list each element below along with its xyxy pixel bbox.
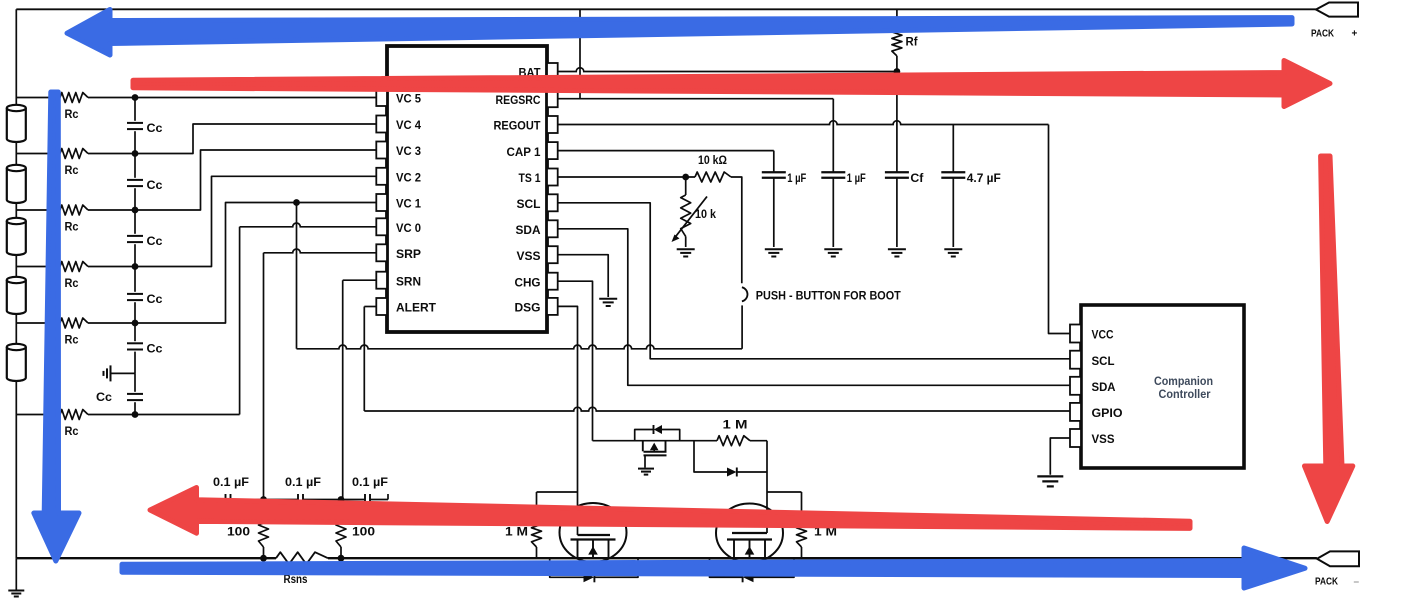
pin stub U2 VSS [1070, 429, 1081, 447]
svg-text:DSG: DSG [515, 301, 541, 315]
wire tap 1 to bus [88, 97, 135, 99]
wire Cc bus segment 1 [134, 98, 136, 121]
resistor Rc5 [60, 318, 88, 328]
svg-text:VC 1: VC 1 [396, 197, 421, 211]
capacitor 0.1uF #2 [297, 494, 299, 505]
arrow blue left (vertical) [34, 92, 79, 561]
ground (C2 1uF) [824, 248, 842, 250]
wire tap3 to VC3 [135, 150, 377, 210]
node TS1 junction [682, 174, 689, 181]
wire TS1 row [558, 176, 695, 178]
pin stub DSG [547, 298, 558, 315]
capacitor 0.1uF #1 [225, 494, 227, 505]
svg-text:100: 100 [227, 525, 250, 539]
wire C2 1uF to ground [832, 178, 834, 247]
svg-text:VSS: VSS [1092, 432, 1115, 446]
svg-text:Cc: Cc [147, 178, 163, 192]
transistor Q2 DSG FET [560, 503, 627, 562]
wire thermistor top [685, 177, 687, 195]
diode D4 (Q3 body) [743, 572, 754, 582]
wire CAP1 drop [773, 151, 775, 173]
svg-text:SRP: SRP [396, 247, 421, 261]
wire U2 VSS to ground [1050, 438, 1070, 475]
wire DSG gate to 1M [537, 491, 578, 493]
pin stub VC 2 [376, 168, 387, 185]
wire tap5 to VC1 [135, 203, 377, 324]
node Rsns left [260, 555, 267, 562]
wire VC1 drop [296, 203, 298, 349]
wire tap 6 left [16, 414, 60, 416]
ground (Cc mid, rotated) [110, 365, 112, 381]
svg-text:Rc: Rc [65, 220, 79, 234]
wire C4 4.7uF to ground [952, 178, 954, 247]
resistor 100 (SRN) [340, 500, 342, 516]
wire ALERT row [364, 306, 376, 308]
wire tap 3 to bus [88, 209, 135, 211]
capacitor Cc2 [127, 179, 143, 181]
wire tap 5 left [16, 322, 60, 324]
wire CHG gate drop [766, 441, 768, 533]
resistor Rc6 [60, 410, 88, 420]
svg-text:Cc: Cc [147, 292, 163, 306]
pin stub TS 1 [547, 169, 558, 186]
svg-text:VC 0: VC 0 [396, 221, 421, 235]
wire tap 2 left [16, 153, 60, 155]
wire PACK- bottom rail [16, 557, 276, 559]
capacitor 0.1uF #3 [364, 494, 366, 505]
pin stub U2 GPIO [1070, 403, 1081, 421]
capacitor C4 4.7uF [941, 171, 965, 173]
wire REGOUT row [558, 121, 1049, 125]
capacitor C1 1uF [762, 171, 786, 173]
diode D1 (over small FET) [654, 425, 662, 434]
wire A riser to push-button [741, 305, 743, 348]
svg-text:10 kΩ: 10 kΩ [698, 153, 727, 167]
diode D3 (Q2 body) [584, 572, 595, 582]
svg-text:VC 2: VC 2 [396, 171, 421, 185]
svg-text:Cc: Cc [147, 234, 163, 248]
ground (C1 1uF) [765, 248, 783, 250]
svg-text:VSS: VSS [517, 249, 541, 263]
wire battery chain segment 4 [15, 255, 17, 280]
svg-text:1 µF: 1 µF [787, 171, 806, 185]
wire SRP drop [263, 253, 265, 500]
svg-text:1 µF: 1 µF [847, 171, 866, 185]
capacitor Cf [885, 171, 909, 173]
wire REGOUT to VCC drop [1049, 125, 1071, 334]
ground (IC VSS) [599, 298, 617, 300]
wire VC0 row [240, 223, 377, 227]
svg-text:PACK: PACK [1315, 576, 1338, 588]
capacitor Cc5 [127, 342, 143, 344]
svg-text:CAP 1: CAP 1 [507, 145, 541, 159]
wire tap 2 to bus [88, 153, 135, 155]
resistor Rf [896, 9, 898, 30]
wire battery chain segment 2 [15, 142, 17, 168]
svg-text:VC 4: VC 4 [396, 118, 421, 132]
battery cell BT1 [7, 108, 26, 142]
node tap 5 junction [132, 320, 139, 327]
svg-text:100: 100 [352, 525, 375, 539]
pin stub VC 5 [376, 89, 387, 106]
wire CHG gate net [593, 440, 718, 442]
wire SRN row [343, 279, 377, 281]
svg-text:PUSH - BUTTON FOR BOOT: PUSH - BUTTON FOR BOOT [756, 288, 902, 302]
svg-text:Companion: Companion [1154, 374, 1213, 388]
wire tap6 riser [239, 227, 241, 415]
wire thermistor to ground [685, 236, 687, 247]
svg-text:10 k: 10 k [695, 207, 716, 221]
wire B ALERT to GPIO [364, 407, 1070, 411]
wire Cc bus segment 2 [134, 154, 136, 178]
node tap 6 junction [132, 411, 139, 418]
svg-text:SCL: SCL [1092, 354, 1115, 368]
resistor Rsns [276, 552, 328, 564]
svg-text:Rc: Rc [65, 276, 79, 290]
svg-text:SCL: SCL [517, 197, 541, 211]
svg-text:Cf: Cf [910, 171, 924, 185]
wire Q2 body-diode loop [550, 558, 584, 577]
pin stub VC 3 [376, 142, 387, 159]
wire tap 3 left [16, 209, 60, 211]
capacitor Cc3 [127, 235, 143, 237]
resistor Rc4 [60, 262, 88, 272]
wire 0.1uF row [213, 499, 225, 501]
svg-text:PACK: PACK [1311, 28, 1334, 40]
wire battery chain top segment [15, 9, 17, 108]
arrow red top (discharge current) [133, 61, 1330, 107]
transistor Q1 (small FET) [642, 441, 644, 452]
wire Cc bus segment 6 [134, 373, 136, 391]
svg-text:Rf: Rf [906, 35, 919, 49]
wire 4.7uF drop [952, 125, 954, 173]
svg-text:+: + [1352, 29, 1358, 40]
arrow blue bottom [122, 548, 1305, 588]
svg-text:Rc: Rc [65, 424, 79, 438]
wire tap6 row extension [135, 414, 240, 416]
svg-text:Rc: Rc [65, 163, 79, 177]
wire battery chain segment 5 [15, 314, 17, 347]
node tap 3 junction [132, 207, 139, 214]
wire C1 1uF to ground [773, 178, 775, 247]
wire PACK+ top rail [16, 8, 1316, 10]
wire tap 6 to bus [88, 414, 135, 416]
wire Cc bus segment 3 [134, 210, 136, 234]
svg-text:0.1 µF: 0.1 µF [285, 475, 321, 489]
wire PACK+ to REGSRC vertical [579, 9, 581, 98]
wire Q3 body-diode loop [710, 558, 743, 577]
pin stub REGOUT [547, 116, 558, 133]
svg-text:VC 5: VC 5 [396, 92, 421, 106]
wire small-FET diode loop [635, 430, 653, 441]
node Rsns right [338, 555, 345, 562]
wire 1M/diode left branch [694, 441, 727, 472]
battery cell BT3 [7, 221, 26, 255]
wire battery chain segment 6 [15, 381, 17, 558]
node SRP filter junction [260, 496, 267, 503]
svg-text:Cc: Cc [147, 121, 163, 135]
svg-text:–: – [1354, 577, 1360, 588]
wire SCL route [558, 203, 1070, 359]
svg-text:REGOUT: REGOUT [494, 119, 542, 133]
wire ALERT drop [363, 307, 365, 412]
resistor Rc3 [60, 205, 88, 215]
resistor 1M (gate top) [717, 436, 750, 446]
IC U1 battery monitor body [387, 46, 547, 332]
pin stub U2 SDA [1070, 377, 1081, 395]
svg-text:4.7 µF: 4.7 µF [967, 171, 1001, 185]
ground (Cf) [888, 248, 906, 250]
capacitor Cc4 [127, 293, 143, 295]
pin stub CAP 1 [547, 142, 558, 159]
IC U2 Companion Controller body [1081, 305, 1244, 468]
wire REGSRC drop [832, 99, 834, 173]
wire tap2 to VC4 [135, 124, 377, 154]
pin stub VSS [547, 246, 558, 263]
svg-text:0.1 µF: 0.1 µF [352, 475, 388, 489]
capacitor Cc6 [127, 393, 143, 395]
svg-text:SDA: SDA [1092, 380, 1116, 394]
wire CHG gate to 1M [767, 491, 802, 493]
node BAT/Rf junction [894, 68, 901, 75]
wire rail to system ground [15, 558, 17, 590]
wire DSG route [558, 306, 578, 535]
pin stub VC 0 [376, 218, 387, 235]
wire SRP row [264, 249, 377, 253]
svg-text:Rc: Rc [65, 333, 79, 347]
wire A (boot net) [297, 345, 743, 349]
svg-text:1 M: 1 M [723, 418, 748, 432]
pin stub CHG [547, 273, 558, 290]
svg-text:VCC: VCC [1092, 328, 1114, 342]
wire tap 5 to bus [88, 322, 135, 324]
wire tap 4 to bus [88, 266, 135, 268]
node VC1 junction [293, 199, 300, 206]
battery cell BT5 [7, 347, 26, 381]
wire CAP1 row [558, 150, 774, 152]
pin stub REGSRC [547, 90, 558, 107]
svg-text:VC 3: VC 3 [396, 144, 421, 158]
wire VSS to ground [558, 255, 609, 297]
pin stub ALERT [376, 298, 387, 315]
svg-text:SDA: SDA [516, 223, 541, 237]
battery cell BT2 [7, 168, 26, 203]
resistor 100 (SRP) [263, 500, 265, 516]
ground (system, bottom-left) [8, 590, 24, 592]
svg-text:Rc: Rc [65, 107, 79, 121]
resistor 1M (CHG gate-source) [801, 492, 803, 519]
ground (C4 4.7uF) [944, 248, 962, 250]
arrow red right (vertical) [1305, 156, 1353, 522]
wire tap 4 left [16, 266, 60, 268]
battery cell BT4 [7, 280, 26, 314]
wire Cc bus segment 5 [134, 323, 136, 341]
pin stub SDA [547, 220, 558, 237]
svg-text:Cc: Cc [96, 390, 112, 404]
wire Cf to ground [896, 178, 898, 247]
ground (Q1 gate) [638, 468, 654, 470]
wire SDA route [558, 229, 1070, 385]
arrow blue top (charge current) [67, 10, 1292, 56]
wire Cc bus segment 4 [134, 267, 136, 292]
pin stub BAT [547, 63, 558, 80]
wire tap4 to VC2 [135, 176, 377, 266]
pin stub SCL [547, 194, 558, 211]
node tap 4 junction [132, 263, 139, 270]
terminal PACK+ [1316, 3, 1358, 17]
resistor 1M (DSG gate-source) [536, 492, 538, 519]
terminal PACK- [1317, 551, 1359, 566]
wire BAT row [558, 68, 897, 72]
wire REGSRC row [558, 98, 834, 100]
wire battery chain segment 3 [15, 203, 17, 221]
pin stub VC 1 [376, 194, 387, 211]
wire VC5 row [135, 97, 377, 99]
capacitor C2 1uF [821, 171, 845, 173]
pin stub U2 SCL [1070, 351, 1081, 369]
wire CHG route [558, 281, 593, 441]
wire tap 1 left [16, 97, 60, 99]
pin stub U2 VCC [1070, 325, 1081, 343]
wire D2 to CHG gate [737, 471, 767, 473]
transistor Q3 CHG FET [716, 504, 783, 563]
svg-text:1 M: 1 M [505, 525, 528, 539]
ground (thermistor) [677, 248, 695, 250]
resistor R 10kΩ [695, 172, 731, 182]
wire 10k to push-button [731, 177, 742, 283]
svg-text:CHG: CHG [515, 275, 541, 289]
arrow red bottom [150, 488, 1190, 534]
node tap 1 junction [132, 94, 139, 101]
resistor Rc1 [60, 93, 88, 103]
svg-text:GPIO: GPIO [1092, 406, 1123, 420]
pin stub VC 4 [376, 116, 387, 133]
svg-text:ALERT: ALERT [396, 301, 437, 315]
pin stub SRP [376, 244, 387, 261]
resistor Rc2 [60, 149, 88, 159]
push-button for boot [742, 287, 748, 301]
thermistor RT1 10k [681, 195, 691, 236]
svg-text:0.1 µF: 0.1 µF [213, 475, 249, 489]
wire Cf drop [896, 72, 898, 173]
capacitor Cc1 [127, 122, 143, 124]
svg-text:Controller: Controller [1159, 387, 1211, 401]
svg-text:TS 1: TS 1 [519, 171, 541, 185]
svg-text:REGSRC: REGSRC [496, 93, 541, 107]
wire Cc midpoint ground stub [111, 372, 136, 374]
svg-text:Cc: Cc [147, 341, 163, 355]
pin stub SRN [376, 272, 387, 289]
node tap 2 junction [132, 150, 139, 157]
ground (U2 VSS) [1037, 475, 1063, 477]
svg-text:SRN: SRN [396, 274, 421, 288]
wire SRN drop [342, 280, 344, 499]
diode D2 (gate, points right) [727, 468, 737, 477]
node SRN filter junction [338, 496, 345, 503]
